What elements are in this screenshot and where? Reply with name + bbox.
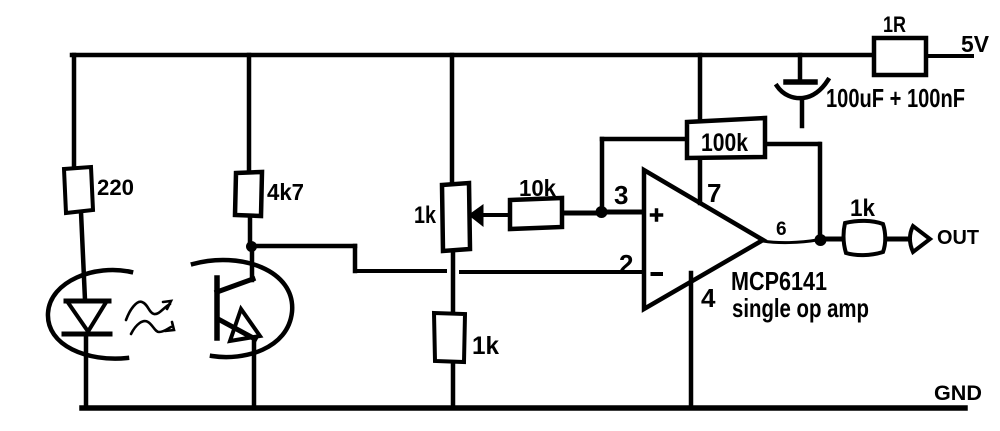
svg-text:5V: 5V: [961, 31, 990, 57]
svg-text:100k: 100k: [701, 129, 748, 157]
svg-text:MCP6141: MCP6141: [731, 266, 827, 296]
svg-text:100uF + 100nF: 100uF + 100nF: [826, 83, 965, 113]
svg-text:OUT: OUT: [937, 227, 979, 249]
svg-text:3: 3: [614, 180, 628, 210]
svg-text:220: 220: [97, 175, 134, 200]
svg-text:1k: 1k: [472, 332, 499, 360]
svg-text:single op amp: single op amp: [732, 293, 869, 323]
svg-text:1k: 1k: [850, 195, 876, 222]
svg-text:4: 4: [701, 283, 716, 313]
svg-text:6: 6: [776, 219, 787, 240]
svg-text:1R: 1R: [883, 12, 906, 37]
svg-text:10k: 10k: [519, 175, 556, 201]
svg-text:2: 2: [619, 249, 633, 279]
svg-text:GND: GND: [934, 382, 982, 405]
svg-text:1k: 1k: [414, 202, 437, 229]
svg-text:7: 7: [707, 178, 721, 208]
svg-text:4k7: 4k7: [267, 179, 304, 205]
